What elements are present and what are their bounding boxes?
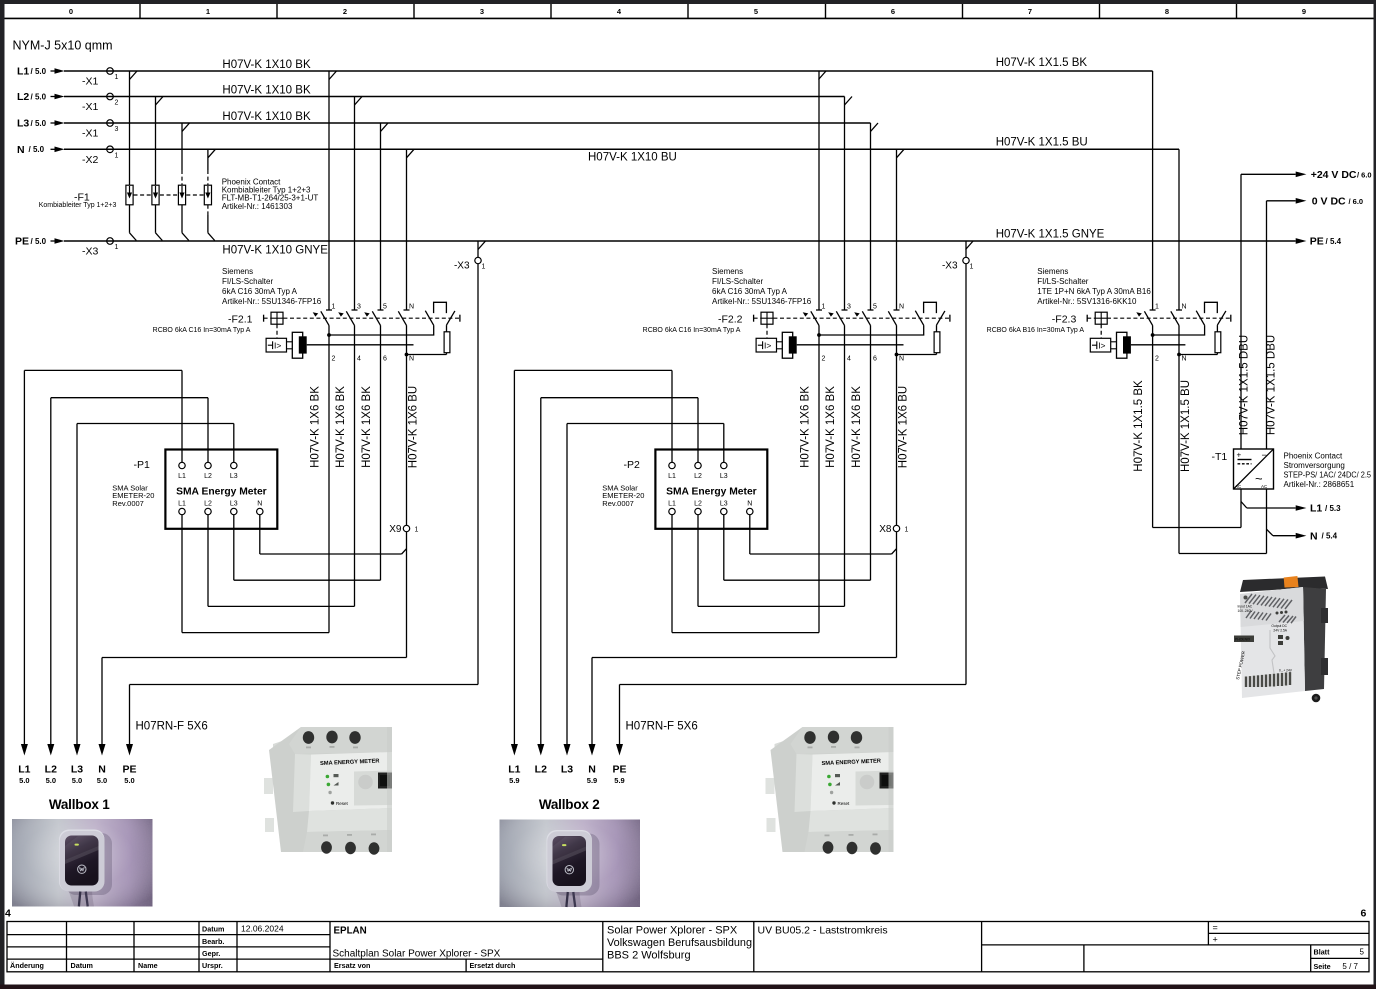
wire H07V-K 1X6 BK -F2.2 pin 2 to -P2 L1 (672, 325, 819, 632)
coupling dashed line -F1 (134, 194, 205, 196)
svg-text:FI/LS-Schalter: FI/LS-Schalter (222, 277, 273, 286)
svg-text:FI/LS-Schalter: FI/LS-Schalter (712, 277, 763, 286)
wire PE bus (64, 240, 1296, 242)
terminal -X1 pin 3 (82, 120, 119, 140)
load arrow Wallbox 1 L2 (45, 744, 57, 785)
svg-text:5.9: 5.9 (587, 776, 597, 785)
svg-text:H07V-K 1X1.5 BK: H07V-K 1X1.5 BK (996, 57, 1088, 69)
junction jog PE / -X3.1 (478, 241, 486, 250)
wire H07V-K 1X6 BK -F2.2 pin 4 to -P2 L2 (698, 325, 845, 606)
wire H07V-K 1X6 BK -F2.1 pin 2 to -P1 L1 (182, 325, 329, 632)
-P2 pins L1 L2 L3 N (bottom) (668, 501, 753, 515)
svg-text:Wallbox 1: Wallbox 1 (49, 797, 110, 812)
svg-text:/ 5.0: / 5.0 (31, 92, 47, 101)
wire N bus to -F2.2 pin N (896, 149, 898, 310)
svg-text:L3: L3 (561, 764, 573, 776)
svg-text:Artikel-Nr.: 2868651: Artikel-Nr.: 2868651 (1284, 480, 1355, 489)
svg-text:1: 1 (822, 304, 826, 311)
wire H07V-K 1X6 BU -F2.2 pin N to -P2 N via X8 (750, 325, 897, 657)
svg-text:0: 0 (69, 7, 73, 16)
svg-text:L2: L2 (694, 473, 702, 480)
svg-text:5.9: 5.9 (509, 776, 519, 785)
svg-text:Siemens: Siemens (222, 267, 253, 276)
svg-text:/ 5.0: / 5.0 (31, 119, 47, 128)
svg-text:L2: L2 (694, 501, 702, 508)
wire L3 bus (64, 122, 871, 124)
wire H07V-K 1X6 BK -F2.1 pin 6 to -P1 L3 (234, 325, 381, 580)
svg-text:6: 6 (1361, 908, 1367, 920)
junction jog L2 / -F1 (156, 97, 164, 106)
svg-text:L1: L1 (1310, 503, 1322, 515)
svg-text:6: 6 (383, 356, 387, 363)
load arrow Wallbox 1 PE (122, 744, 136, 785)
svg-text:/ 6.0: / 6.0 (1357, 170, 1372, 179)
svg-text:5.0: 5.0 (19, 776, 29, 785)
terminal -X1 pin 2 (82, 93, 119, 113)
svg-text:1: 1 (115, 74, 119, 81)
svg-text:5: 5 (754, 7, 758, 16)
RCBO -F2.2 symbol (Siemens FI/LS-Schalter) (754, 302, 950, 358)
wire H07RN-F L1 -P2 to Wallbox 2 (514, 370, 672, 744)
svg-text:H07V-K 1X1.5 BU: H07V-K 1X1.5 BU (996, 137, 1088, 149)
branch wire + arrow L1 / 5.3 (1241, 502, 1341, 515)
terminal -X2 pin 1 (82, 146, 119, 166)
photo Phoenix Contact STEP-PS power supply (-T1) (1234, 576, 1328, 702)
svg-text:Rev.0007: Rev.0007 (112, 499, 144, 508)
wire L1 bus to -F2.2 pin L1 (818, 71, 820, 310)
svg-text:Volkswagen Berufsausbildung: Volkswagen Berufsausbildung (607, 937, 752, 949)
svg-text:N: N (257, 501, 262, 508)
svg-text:H07V-K 1X6 BU: H07V-K 1X6 BU (408, 386, 420, 468)
svg-text:Bearb.: Bearb. (202, 937, 224, 946)
junction jog N / -F2.2 (897, 149, 905, 158)
svg-text:BBS 2 Wolfsburg: BBS 2 Wolfsburg (607, 950, 691, 962)
svg-text:L1: L1 (17, 66, 29, 78)
svg-text:PE: PE (612, 764, 626, 776)
svg-text:-X3: -X3 (454, 261, 470, 272)
svg-text:1: 1 (970, 264, 974, 271)
pin numbers -F2.2 1/3/5/N top, 2/4/6/N bottom (822, 304, 905, 363)
svg-text:H07V-K 1X6 BK: H07V-K 1X6 BK (799, 386, 811, 468)
svg-text:L1: L1 (668, 501, 676, 508)
junction jog L2 / -F2.1 (355, 97, 363, 106)
wire H07V-K 1X1.5 DBU +24V output (1241, 174, 1296, 449)
svg-text:H07V-K 1X1.5 DBU: H07V-K 1X1.5 DBU (1239, 335, 1251, 435)
wire N bus (64, 148, 1179, 150)
photo SMA Energy Meter (-P1) (259, 718, 392, 855)
svg-text:Änderung: Änderung (10, 961, 44, 970)
note Phoenix Contact STEP-PS (-T1) (1284, 451, 1372, 489)
svg-text:H07V-K 1X1.5 BK: H07V-K 1X1.5 BK (1133, 380, 1145, 472)
svg-text:-X1: -X1 (82, 76, 99, 88)
svg-text:H07V-K 1X6 BK: H07V-K 1X6 BK (825, 386, 837, 468)
svg-text:N: N (1310, 530, 1318, 542)
svg-text:NYM-J 5x10 qmm: NYM-J 5x10 qmm (13, 39, 113, 53)
note Siemens FI/LS-Schalter (-F2.1) (222, 267, 322, 306)
svg-text:4: 4 (847, 356, 851, 363)
svg-text:-F2.3: -F2.3 (1052, 314, 1077, 326)
wire N bus to -F2.3 pin N (1178, 149, 1180, 310)
RCBO -F2.1 symbol (Siemens FI/LS-Schalter) (264, 302, 460, 358)
svg-text:Phoenix Contact: Phoenix Contact (1284, 451, 1343, 460)
svg-text:9: 9 (1302, 7, 1306, 16)
svg-text:Datum: Datum (71, 961, 93, 970)
svg-text:H07V-K 1X1.5 BU: H07V-K 1X1.5 BU (1180, 380, 1192, 472)
wire H07V-K 1X6 BK -F2.1 pin 4 to -P1 L2 (208, 325, 355, 606)
svg-text:0 V DC: 0 V DC (1312, 195, 1346, 207)
surge arrester cartridge -F1.2 (152, 185, 159, 205)
svg-text:/ 5.4: / 5.4 (1326, 237, 1342, 246)
svg-text:5.0: 5.0 (46, 776, 56, 785)
svg-text:Seite: Seite (1314, 962, 1331, 971)
svg-text:L3: L3 (230, 473, 238, 480)
pin numbers -F2.1 1/3/5/N top, 2/4/6/N bottom (332, 304, 415, 363)
svg-text:STEP-PS/ 1AC/ 24DC/ 2.5: STEP-PS/ 1AC/ 24DC/ 2.5 (1284, 470, 1372, 479)
terminal -X3 pin 1 (82, 238, 119, 258)
svg-text:L3: L3 (720, 473, 728, 480)
terminal -X1 pin 1 (82, 68, 119, 88)
load arrow Wallbox 1 L1 (18, 744, 30, 785)
svg-text:PE: PE (122, 764, 136, 776)
svg-text:-X1: -X1 (82, 101, 99, 113)
wire L1 to -F1 arrester 1 (129, 71, 131, 185)
wire -F1 arrester 3 to PE bus (182, 205, 189, 241)
svg-text:Blatt: Blatt (1314, 948, 1331, 957)
svg-text:N: N (98, 764, 106, 776)
power supply -T1 symbol (AC/DC converter) (1234, 449, 1274, 489)
wire N to -F1 arrester 4 (207, 149, 209, 185)
svg-text:L2: L2 (535, 764, 547, 776)
note SMA Solar EMETER-20 (-P1) (112, 484, 154, 508)
wire L2 to -F1 arrester 2 (155, 97, 157, 186)
wire H07RN-F PE to Wallbox 1 (130, 241, 479, 745)
wire L1 bus to -F2.3 pin 1 (1152, 71, 1154, 310)
svg-text:L2: L2 (17, 91, 29, 103)
svg-text:+: + (1213, 935, 1218, 945)
svg-text:H07V-K 1X6 BK: H07V-K 1X6 BK (851, 386, 863, 468)
svg-text:H07V-K 1X10 BK: H07V-K 1X10 BK (222, 111, 311, 123)
wire -F1 arrester 2 to PE bus (156, 205, 163, 241)
svg-text:5: 5 (1360, 948, 1365, 957)
svg-text:3: 3 (480, 7, 484, 16)
wire L2 bus (64, 96, 845, 98)
svg-text:Name: Name (138, 961, 158, 970)
wire H07RN-F PE to Wallbox 2 (620, 241, 967, 745)
load arrow Wallbox 1 L3 (71, 744, 83, 785)
svg-text:X8: X8 (879, 524, 892, 535)
-P2 pins L1 L2 L3 (top) (668, 462, 728, 480)
svg-text:1: 1 (206, 7, 210, 16)
junction jog L1 / -F2.2 (819, 71, 827, 80)
junction jog PE / -X3.2 (966, 241, 974, 250)
svg-text:H07RN-F 5X6: H07RN-F 5X6 (136, 721, 208, 733)
terminal -X3 pin 1 (PE drop Wallbox 1) (454, 257, 486, 271)
svg-text:1: 1 (1155, 304, 1159, 311)
wire H07RN-F N to Wallbox 2 (592, 658, 897, 745)
svg-text:3: 3 (847, 304, 851, 311)
svg-text:/ 5.0: / 5.0 (31, 237, 47, 246)
svg-text:Wallbox 2: Wallbox 2 (539, 797, 600, 812)
svg-text:Schaltplan Solar Power Xplorer: Schaltplan Solar Power Xplorer - SPX (333, 949, 501, 960)
arrow +24 V DC / 6.0 (1296, 169, 1372, 181)
load arrow Wallbox 2 N (587, 744, 597, 785)
svg-text:1TE 1P+N 6kA Typ A 30mA B16: 1TE 1P+N 6kA Typ A 30mA B16 (1037, 287, 1151, 296)
PE bus arrow to sheet 5.4 (1296, 236, 1342, 248)
wire H07V-K 1X1.5 BU -F2.3 pin N to -T1 AC N (1179, 325, 1267, 553)
wire -F1 arrester 4 to PE bus (208, 205, 215, 241)
svg-text:Stromversorgung: Stromversorgung (1284, 461, 1345, 470)
svg-text:I>: I> (1098, 340, 1105, 350)
svg-text:H07V-K 1X10 BU: H07V-K 1X10 BU (588, 152, 677, 164)
wire L2 bus to -F2.1 pin L2 (354, 97, 356, 311)
svg-text:-X3: -X3 (82, 246, 99, 258)
svg-text:6kA C16 30mA Typ A: 6kA C16 30mA Typ A (712, 287, 788, 296)
svg-text:5 / 7: 5 / 7 (1342, 962, 1358, 971)
svg-text:-P2: -P2 (624, 459, 641, 471)
svg-text:N: N (588, 764, 596, 776)
svg-text:H07RN-F 5X6: H07RN-F 5X6 (626, 721, 698, 733)
svg-text:H07V-K 1X10 GNYE: H07V-K 1X10 GNYE (222, 245, 328, 257)
svg-text:2: 2 (343, 7, 347, 16)
svg-text:5: 5 (873, 304, 877, 311)
wire L3 bus to -F2.2 pin L3 (870, 123, 872, 310)
svg-text:5.0: 5.0 (124, 776, 134, 785)
photo Wallbox 1 (VW ID. Charger) (12, 819, 153, 907)
svg-text:3: 3 (357, 304, 361, 311)
svg-text:5.0: 5.0 (97, 776, 107, 785)
svg-text:N: N (409, 356, 414, 363)
svg-text:Artikel-Nr.: 5SU1346-7FP16: Artikel-Nr.: 5SU1346-7FP16 (712, 297, 812, 306)
surge arrester cartridge -F1.1 (126, 185, 133, 205)
junction jog L1 / -F2.1 (329, 71, 337, 80)
svg-text:−: − (1262, 450, 1267, 460)
svg-text:L2: L2 (204, 501, 212, 508)
wire L3 to -F1 arrester 3 (181, 123, 183, 185)
svg-text:2: 2 (1155, 356, 1159, 363)
junction jog N / -F2.1 (407, 149, 415, 158)
svg-text:Kombiableiter Typ 1+2+3: Kombiableiter Typ 1+2+3 (39, 202, 117, 209)
svg-text:H07V-K 1X1.5 GNYE: H07V-K 1X1.5 GNYE (996, 229, 1105, 241)
svg-text:Ersetzt durch: Ersetzt durch (470, 961, 516, 970)
svg-text:N: N (899, 356, 904, 363)
svg-text:RCBO 6kA B16 In=30mA Typ A: RCBO 6kA B16 In=30mA Typ A (987, 327, 1085, 334)
svg-text:L1: L1 (18, 764, 30, 776)
svg-text:5.0: 5.0 (72, 776, 82, 785)
wire H07V-K 1X6 BU -F2.1 pin N to -P1 N via X9 (260, 325, 407, 657)
wire H07RN-F L3 -P1 to Wallbox 1 (77, 424, 234, 745)
svg-text:L1: L1 (178, 501, 186, 508)
svg-text:H07V-K 1X1.5 DBU: H07V-K 1X1.5 DBU (1265, 335, 1277, 435)
svg-text:UV BU05.2 - Laststromkreis: UV BU05.2 - Laststromkreis (758, 925, 888, 937)
svg-text:1: 1 (115, 244, 119, 251)
source arrow L2 / 5.0 (incoming feeder) (17, 91, 65, 103)
wire -F1 arrester 1 to PE bus (130, 205, 137, 241)
svg-text:6kA C16 30mA Typ A: 6kA C16 30mA Typ A (222, 287, 298, 296)
svg-text:6: 6 (873, 356, 877, 363)
note SMA Solar EMETER-20 (-P2) (602, 484, 644, 508)
svg-text:AC: AC (1261, 484, 1268, 489)
surge arrester cartridge -F1.3 (178, 185, 185, 205)
svg-text:Rev.0007: Rev.0007 (602, 499, 634, 508)
svg-text:AC: AC (1235, 484, 1242, 489)
wire H07RN-F L2 -P2 to Wallbox 2 (541, 398, 698, 745)
svg-text:H07V-K 1X6 BK: H07V-K 1X6 BK (361, 386, 373, 468)
note Siemens 1TE 1P+N (-F2.3) (1037, 267, 1151, 306)
load arrow Wallbox 1 N (97, 744, 107, 785)
source arrow L3 / 5.0 (incoming feeder) (17, 118, 65, 130)
junction jog L2 / -F2.2 (845, 97, 853, 106)
-P1 pins L1 L2 L3 (top) (178, 462, 238, 480)
-P1 pins L1 L2 L3 N (bottom) (178, 501, 263, 515)
wire H07RN-F L2 -P1 to Wallbox 1 (51, 398, 208, 745)
svg-text:1: 1 (482, 264, 486, 271)
svg-text:1: 1 (115, 152, 119, 159)
svg-text:5.9: 5.9 (614, 776, 624, 785)
svg-text:-T1: -T1 (1212, 451, 1228, 463)
surge arrester cartridge -F1.4 (204, 185, 211, 205)
svg-text:3: 3 (115, 126, 119, 133)
RCBO -F2.3 symbol (Siemens 1P+N) (1087, 302, 1231, 358)
load arrow Wallbox 2 L2 (535, 744, 547, 776)
svg-text:2: 2 (115, 100, 119, 107)
svg-text:H07V-K 1X6 BK: H07V-K 1X6 BK (309, 386, 321, 468)
svg-text:Ersatz von: Ersatz von (334, 961, 370, 970)
svg-text:N: N (409, 304, 414, 311)
wire H07RN-F L3 -P2 to Wallbox 2 (567, 424, 724, 745)
svg-text:H07V-K 1X10 BK: H07V-K 1X10 BK (222, 85, 311, 97)
svg-text:5: 5 (383, 304, 387, 311)
wire N bus to -F2.1 pin N (406, 149, 408, 310)
svg-text:PE: PE (15, 236, 29, 248)
svg-text:SMA Energy Meter: SMA Energy Meter (176, 487, 267, 498)
svg-text:/ 5.3: / 5.3 (1325, 504, 1341, 513)
junction jog L3 / -F2.2 (871, 123, 879, 132)
svg-text:-X2: -X2 (82, 154, 99, 166)
wire H07RN-F L1 -P1 to Wallbox 1 (24, 370, 182, 744)
svg-text:Artikel-Nr.: 1461303: Artikel-Nr.: 1461303 (222, 202, 293, 211)
svg-text:L1: L1 (178, 473, 186, 480)
load arrow Wallbox 2 L1 (508, 744, 520, 785)
branch wire + arrow N / 5.4 (1267, 529, 1338, 542)
junction jog L3 / -F2.1 (381, 123, 389, 132)
svg-text:8: 8 (1165, 7, 1169, 16)
arrow 0 V DC / 6.0 (1296, 195, 1363, 207)
note Phoenix Contact FLT-MB-T1 (for -F1) (222, 177, 319, 211)
svg-text:-P1: -P1 (134, 459, 151, 471)
svg-text:L3: L3 (71, 764, 83, 776)
svg-text:RCBO 6kA C16 In=30mA Typ A: RCBO 6kA C16 In=30mA Typ A (643, 327, 741, 334)
source arrow PE / 5.0 (incoming feeder) (15, 236, 65, 248)
svg-text:Artikel-Nr.: 5SV1316-6KK10: Artikel-Nr.: 5SV1316-6KK10 (1037, 297, 1137, 306)
svg-text:=: = (1213, 923, 1218, 933)
svg-text:1: 1 (332, 304, 336, 311)
svg-text:+24 V DC: +24 V DC (1311, 169, 1357, 181)
svg-text:EPLAN: EPLAN (334, 926, 367, 937)
svg-text:Siemens: Siemens (712, 267, 743, 276)
svg-text:1: 1 (415, 527, 419, 534)
note Siemens FI/LS-Schalter (-F2.2) (712, 267, 812, 306)
svg-text:-F2.2: -F2.2 (718, 314, 743, 326)
wire H07V-K 1X1.5 BK -F2.3 pin 2 to -T1 AC L (1153, 325, 1241, 527)
svg-text:Siemens: Siemens (1037, 267, 1068, 276)
svg-text:6: 6 (891, 7, 895, 16)
svg-text:RCBO 6kA C16 In=30mA Typ A: RCBO 6kA C16 In=30mA Typ A (153, 327, 251, 334)
svg-text:L2: L2 (204, 473, 212, 480)
svg-text:FI/LS-Schalter: FI/LS-Schalter (1037, 277, 1088, 286)
terminal -X3 pin 1 (PE drop Wallbox 2) (942, 257, 974, 271)
pin numbers -F2.3 1/N top, 2/N bottom (1155, 304, 1187, 363)
junction jog N / -F1 (208, 149, 216, 158)
svg-text:-X3: -X3 (942, 261, 958, 272)
svg-text:2: 2 (332, 356, 336, 363)
svg-text:Datum: Datum (202, 925, 224, 934)
svg-text:N: N (899, 304, 904, 311)
wire H07RN-F N to Wallbox 1 (102, 658, 407, 745)
svg-text:L3: L3 (720, 501, 728, 508)
-P1 internal pin stubs (182, 450, 260, 530)
svg-text:X9: X9 (389, 524, 402, 535)
svg-text:N: N (17, 144, 25, 156)
svg-text:H07V-K 1X6 BK: H07V-K 1X6 BK (335, 386, 347, 468)
svg-text:H07V-K 1X10 BK: H07V-K 1X10 BK (222, 59, 311, 71)
wire H07V-K 1X6 BK -F2.2 pin 6 to -P2 L3 (724, 325, 871, 580)
wire H07V-K 1X1.5 DBU 0V output (1267, 201, 1296, 449)
junction jog L3 / -F1 (182, 123, 190, 132)
svg-text:/ 6.0: / 6.0 (1349, 197, 1364, 206)
svg-text:N: N (1182, 356, 1187, 363)
svg-text:PE: PE (1310, 236, 1324, 248)
load arrow Wallbox 2 PE (612, 744, 626, 785)
svg-text:Urspr.: Urspr. (202, 961, 223, 970)
wire L2 bus to -F2.2 pin L2 (844, 97, 846, 311)
junction jog L1 / -F1 (130, 71, 138, 80)
svg-text:-X1: -X1 (82, 128, 99, 140)
wire L1 bus (64, 70, 1153, 72)
wire L1 bus to -F2.1 pin L1 (328, 71, 330, 310)
svg-text:4: 4 (357, 356, 361, 363)
svg-text:12.06.2024: 12.06.2024 (241, 924, 284, 934)
svg-text:Solar Power Xplorer - SPX: Solar Power Xplorer - SPX (607, 925, 738, 937)
photo SMA Energy Meter (-P2) (761, 718, 894, 855)
terminal X9 pin 1 (389, 524, 418, 535)
svg-text:N: N (747, 501, 752, 508)
-P2 internal pin stubs (672, 450, 750, 530)
source arrow L1 / 5.0 (incoming feeder) (17, 66, 65, 78)
svg-text:+: + (1237, 451, 1242, 460)
svg-text:L2: L2 (45, 764, 57, 776)
load arrow Wallbox 2 L3 (561, 744, 573, 776)
svg-text:SMA Energy Meter: SMA Energy Meter (666, 487, 757, 498)
svg-text:L1: L1 (508, 764, 520, 776)
energy meter -P1 box (165, 450, 277, 529)
svg-text:7: 7 (1028, 7, 1032, 16)
photo Wallbox 2 (VW ID. Charger) (500, 820, 641, 908)
svg-text:/ 5.0: / 5.0 (31, 67, 47, 76)
svg-text:Gepr.: Gepr. (202, 949, 220, 958)
wire L3 bus to -F2.1 pin L3 (380, 123, 382, 310)
svg-text:4: 4 (5, 908, 11, 920)
energy meter -P2 box (655, 450, 767, 529)
svg-text:Artikel-Nr.: 5SU1346-7FP16: Artikel-Nr.: 5SU1346-7FP16 (222, 297, 322, 306)
svg-text:N: N (1182, 304, 1187, 311)
svg-text:1: 1 (905, 527, 909, 534)
source arrow N / 5.0 (incoming feeder) (17, 144, 65, 156)
svg-text:L3: L3 (230, 501, 238, 508)
terminal X8 pin 1 (879, 524, 908, 535)
svg-text:2: 2 (822, 356, 826, 363)
svg-text:/ 5.0: / 5.0 (29, 145, 45, 154)
svg-text:L1: L1 (668, 473, 676, 480)
